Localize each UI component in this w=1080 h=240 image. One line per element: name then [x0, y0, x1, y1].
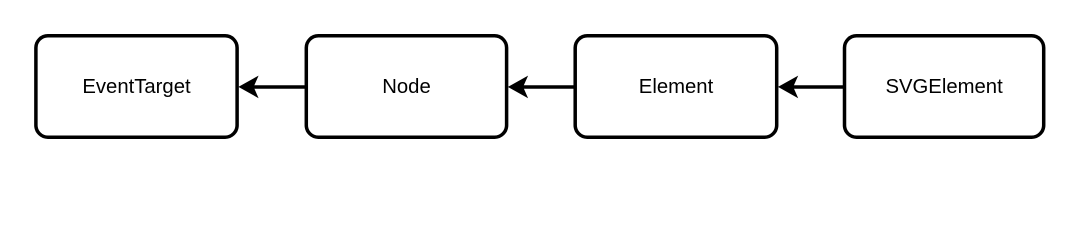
svg-text:Element: Element	[639, 76, 714, 98]
svg-text:SVGElement: SVGElement	[885, 76, 1003, 98]
svg-text:EventTarget: EventTarget	[82, 76, 191, 98]
arrow Node to EventTarget	[238, 76, 306, 99]
arrow SVGElement to Element	[778, 76, 845, 99]
box Element	[575, 36, 777, 137]
svg-text:Node: Node	[382, 76, 431, 98]
box EventTarget	[36, 36, 237, 137]
arrow Element to Node	[508, 76, 575, 99]
box Node	[306, 36, 506, 137]
box SVGElement	[845, 36, 1044, 137]
